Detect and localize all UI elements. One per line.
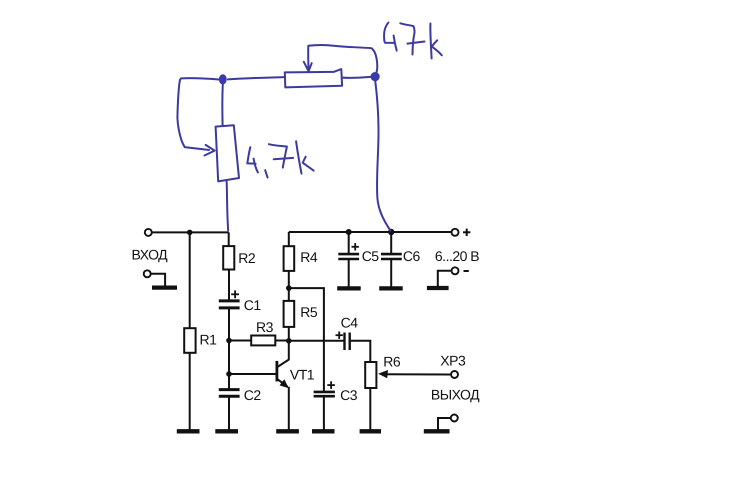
svg-text:C5: C5 [362,248,380,264]
wire input ground stub [152,274,166,287]
svg-text:R4: R4 [300,249,318,265]
wire R4 to R5 [288,271,290,301]
resistor R4 [284,246,295,271]
blue junction dot right [371,72,380,81]
blue handwritten 4,7k text: letter k [296,141,314,173]
svg-text:R5: R5 [300,304,318,320]
VT1 emitter arrowhead [280,379,289,388]
blue 47k wiper arrow stem and top loop [308,45,377,76]
minus sign power terminal [464,270,469,272]
wire C6 bottom lead [390,259,392,288]
plus sign C4 [336,332,343,339]
svg-text:R1: R1 [200,332,218,348]
wire R4 top lead [288,232,290,246]
wire power rail right segment [289,231,451,233]
blue wire 4.7k bottom down to R2 node [227,181,229,231]
blue wire right dot down to C6 rail node [375,81,390,230]
wire R4R5 node to C3 column [289,288,324,391]
terminal power minus [452,267,459,274]
resistor R2 [223,246,234,269]
junction node R3 left [226,338,232,344]
wire R1 top lead [189,232,191,328]
blue handwritten 47k text: digit 4 [384,23,397,51]
svg-text:C2: C2 [244,387,262,403]
wire input rail left segment [152,231,228,233]
wire collector node to C4 [289,340,344,342]
plus sign power terminal [463,229,470,236]
svg-text:C3: C3 [340,387,358,403]
svg-text:6...20 В: 6...20 В [435,248,479,264]
wire C5 bottom lead [348,259,350,288]
blue hand-drawn annotation group [177,23,441,231]
svg-text:XP3: XP3 [440,353,466,369]
wire base node to C2 [228,374,230,389]
wire R2 column top [228,232,230,246]
svg-text:R6: R6 [383,354,401,370]
capacitor C2 [219,390,240,397]
svg-text:ВЫХОД: ВЫХОД [431,387,480,403]
capacitor C1 [219,301,240,308]
svg-text:R3: R3 [256,319,274,335]
svg-text:VT1: VT1 [290,367,315,383]
ground power minus [427,286,449,290]
blue handwritten 4,7k text: digit 4 [247,147,258,172]
junction node R4-R5 [286,285,292,291]
ground input [152,286,177,290]
potentiometer R6 wiper arrowhead [378,370,388,378]
capacitor C5 [338,254,359,259]
capacitor C4 [345,333,350,351]
terminal power plus [452,229,459,236]
blue handwritten 47k text: digit 7 [400,23,424,54]
svg-text:C1: C1 [244,297,262,313]
wire R6 bottom lead [369,389,371,432]
blue wiper arrowhead on 4.7k [205,145,215,156]
capacitor C6 [381,254,402,259]
junction node collector [286,338,292,344]
terminal input upper [145,229,152,236]
svg-text:C4: C4 [341,315,359,331]
resistor R3 [251,336,275,346]
ground C3 [312,429,335,433]
junction node on rail at C6 [388,229,394,235]
ground R1 [177,429,200,433]
resistor R1 [184,328,195,353]
VT1 emitter [278,379,288,387]
wire C2 to ground [228,397,230,432]
junction node on rail at R1 [187,230,193,236]
junction node base [226,371,232,377]
ground C5 [337,286,361,290]
ground C6 [379,286,403,290]
plus sign C5 [352,243,359,250]
ground R6 [360,429,381,433]
blue potentiometer 4.7k body [216,125,239,181]
wire VT1 emitter down lead [288,387,290,431]
blue handwritten 4,7k text: digit 7 [269,144,293,167]
transistor VT1 [277,341,289,387]
blue handwritten 47k text: letter k [430,24,441,59]
ground VT1 emitter [276,429,299,433]
blue wire left dot down to 4.7k top [221,84,223,126]
wire C6 top lead [390,232,392,254]
blue wiper arrowhead on 47k [304,62,312,71]
svg-text:ВХОД: ВХОД [132,247,169,263]
wire R5 bottom lead [288,328,290,341]
resistor R6 (potentiometer) [365,362,376,388]
VT1 base bar [275,361,278,382]
blue junction dot left [219,74,227,84]
wire output jack ground stub [438,418,450,430]
VT1 collector [278,341,289,367]
capacitor C3 [314,392,335,396]
blue potentiometer 47k body [285,69,342,87]
terminal output jack [451,415,458,422]
wire C4 to R6 [351,341,371,362]
wire R2 to C1 [228,270,230,300]
wire minus terminal ground stub [438,271,451,287]
wire R3 left lead [229,340,251,342]
wire XP3 arrow line [382,373,450,375]
wire base wire to VT1 [229,373,277,375]
wire C1 to base node [228,309,230,376]
resistor R5 [284,301,295,327]
terminal XP3 [451,371,458,378]
junction node on rail at C5 [346,229,352,235]
wire C3 bottom lead [323,397,325,432]
wire C5 top lead [348,232,350,254]
wire R1 bottom lead [189,354,191,432]
ground C2 [215,429,238,433]
wire R3 right lead [276,340,289,342]
terminal input lower [144,270,151,277]
blue wire left dot to 47k [228,77,285,79]
blue wire 47k to right dot [342,76,371,79]
plus sign C1 [231,290,239,298]
ground output jack [424,429,450,433]
blue wire left dot going left and down to 4.7k wiper [177,78,219,150]
plus sign C3 [327,381,335,389]
svg-text:R2: R2 [238,250,256,266]
blue handwritten 4,7k text: comma [265,170,267,177]
svg-text:C6: C6 [403,248,421,264]
